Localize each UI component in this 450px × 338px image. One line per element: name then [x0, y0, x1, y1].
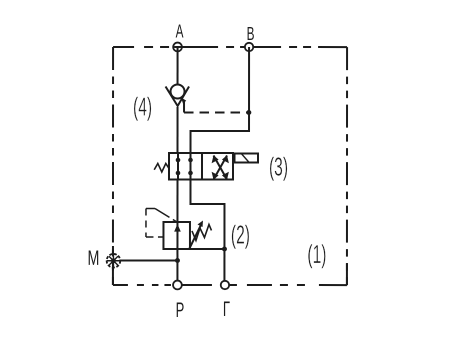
port T circle	[221, 281, 229, 289]
gauge port M symbol cross lines	[107, 254, 121, 268]
wire M gauge line	[119, 259, 177, 261]
junction dot M line	[175, 258, 180, 263]
svg-text:A: A	[176, 22, 184, 42]
directional valve U3 solenoid diagonal	[242, 154, 250, 163]
relief valve V2 body	[163, 222, 190, 249]
enclosure dashed border (1) top side	[113, 46, 347, 48]
check valve pilot arrowhead	[181, 97, 186, 103]
directional valve U3 cross arrowhead bottom-left	[212, 172, 219, 180]
directional valve U3 cross arrowhead bottom-right	[222, 172, 229, 180]
svg-text:(2): (2)	[231, 220, 250, 249]
enclosure dashed border (1) right side	[346, 47, 348, 285]
wire directional valve bottom right port down to T line	[190, 179, 224, 249]
port P circle	[173, 281, 182, 290]
junction dot pilot-B line	[246, 110, 251, 115]
relief valve V2 pilot dashed diagonal	[155, 208, 177, 222]
directional valve U3 blocked-port line left	[177, 153, 179, 180]
relief valve V2 spring	[192, 224, 212, 240]
directional valve U3 crossed flow path 2	[213, 155, 227, 179]
wire check valve to directional valve	[177, 107, 179, 153]
relief valve V2 pilot dashed left	[145, 208, 147, 237]
svg-text:(4): (4)	[133, 92, 152, 121]
svg-text:M: M	[88, 246, 100, 269]
pilot dashed line from check valve to B line	[184, 111, 248, 113]
enclosure dashed border (1) left side	[112, 47, 114, 285]
wire A line down to check valve	[177, 47, 179, 85]
directional valve U3 crossed flow path 1	[213, 155, 227, 179]
directional valve U3 port dot	[188, 158, 193, 163]
svg-text:(3): (3)	[269, 152, 288, 181]
directional valve U3 spring	[154, 163, 169, 172]
relief valve V2 pilot dashed top	[146, 207, 155, 209]
enclosure dashed border (1) bottom side	[113, 284, 347, 286]
enclosure dashed border (1) bottom right corner solid	[346, 263, 348, 285]
svg-text:B: B	[247, 24, 255, 44]
directional valve U3 port dot	[176, 171, 181, 176]
directional valve U3 body right square	[202, 153, 233, 180]
directional valve U3 port dot	[188, 171, 193, 176]
directional valve U3 cross arrowhead top-left	[212, 155, 219, 163]
directional valve U3 body left square	[169, 153, 202, 180]
relief valve V2 pilot dashed bottom	[146, 236, 164, 238]
relief valve V2 adjustment arrow shaft	[189, 224, 202, 250]
gauge port M symbol center dot	[111, 258, 116, 263]
directional valve U3 blocked-port line right	[189, 153, 191, 180]
svg-text:P: P	[176, 298, 185, 322]
wire left border solid below M gauge to corner	[112, 267, 114, 285]
relief valve V2 flow arrow	[174, 224, 181, 232]
wire left border solid above M gauge	[112, 246, 114, 255]
gauge port M symbol circle	[107, 254, 121, 268]
directional valve U3 cross arrowhead top-right	[222, 155, 229, 163]
directional valve U3 solenoid box	[235, 154, 259, 163]
wire relief valve outlet to T junction	[190, 248, 225, 250]
svg-text:(1): (1)	[307, 240, 326, 269]
wire through directional valve, relief valve, down to P port	[176, 179, 178, 281]
port B circle	[245, 43, 253, 51]
relief valve V2 adjustment arrowhead	[197, 220, 203, 227]
directional valve U3 port dot	[176, 158, 181, 163]
wire B line down, left, into directional valve	[191, 47, 250, 153]
svg-text:Г: Г	[223, 297, 230, 321]
check valve V4 ball	[171, 84, 185, 98]
pilot stub at check valve	[183, 101, 185, 113]
junction dot T line	[222, 246, 227, 251]
wire T junction down to T port	[223, 249, 225, 281]
port A circle	[173, 43, 182, 52]
check valve V4 seat	[166, 86, 190, 106]
